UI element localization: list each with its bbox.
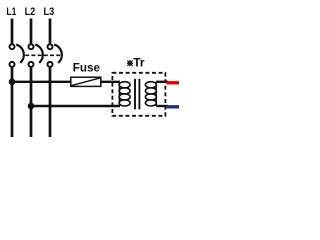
breaker CB pole 2 bottom contact bbox=[29, 62, 34, 67]
fuse F1 diagonal bbox=[72, 78, 101, 86]
wire L2 top bbox=[30, 19, 33, 44]
svg-text:L2: L2 bbox=[25, 6, 36, 18]
wire output red bbox=[167, 81, 180, 84]
breaker CB pole 3 arc bbox=[54, 45, 62, 63]
wire L1 bottom bbox=[11, 68, 14, 137]
breaker CB pole 2 arc bbox=[35, 45, 43, 63]
wire secondary top lead bbox=[156, 81, 168, 83]
svg-text:L1: L1 bbox=[6, 6, 16, 18]
svg-text:Fuse: Fuse bbox=[73, 62, 101, 75]
breaker CB pole 1 arc bbox=[16, 45, 24, 63]
wire secondary bottom lead bbox=[156, 105, 168, 107]
svg-text:Tr: Tr bbox=[133, 56, 145, 70]
fuse F1 body bbox=[71, 77, 101, 86]
breaker CB pole 1 top contact bbox=[10, 44, 15, 49]
transformer secondary winding loops bbox=[145, 82, 156, 106]
breaker CB pole 3 bottom contact bbox=[48, 62, 53, 67]
junction node on L2 bbox=[28, 103, 35, 110]
breaker mechanical link (dashed) bbox=[25, 54, 62, 56]
transformer secondary winding back wire bbox=[155, 82, 157, 106]
transformer primary winding loops bbox=[119, 82, 130, 106]
junction node on L1 bbox=[9, 79, 16, 86]
reference mark bbox=[127, 60, 133, 66]
wire L3 top bbox=[49, 19, 52, 44]
wire L2 to transformer bbox=[31, 105, 120, 107]
breaker CB pole 3 top contact bbox=[48, 44, 53, 49]
transformer Tr dashed enclosure bbox=[112, 73, 165, 116]
breaker CB pole 1 bottom contact bbox=[10, 62, 15, 67]
wire L2 bottom bbox=[30, 68, 33, 137]
wire fuse to transformer bbox=[101, 81, 120, 83]
svg-text:L3: L3 bbox=[44, 6, 55, 18]
transformer primary winding back wire bbox=[118, 82, 120, 106]
breaker CB pole 2 top contact bbox=[29, 44, 34, 49]
wire to fuse (from L1) bbox=[12, 81, 71, 83]
wire output blue bbox=[167, 105, 180, 108]
transformer core bbox=[134, 79, 136, 110]
wire L1 top bbox=[11, 19, 14, 44]
wire L3 bottom bbox=[49, 68, 52, 137]
